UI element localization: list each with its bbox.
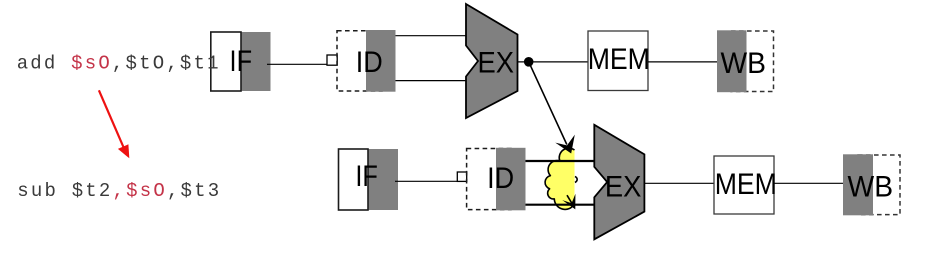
wire EX-MEM (add)	[518, 61, 589, 63]
connector square on ID (sub)	[457, 172, 466, 181]
hazard cloud	[545, 148, 574, 209]
ID stage box (sub)	[467, 149, 511, 210]
wire ID-EX bottom (add)	[396, 80, 468, 82]
EX ALU mux (add)	[466, 4, 518, 118]
cloud right-edge arc remnant	[575, 176, 577, 182]
MEM stage box (add)	[588, 31, 648, 91]
ID stage box (add)	[337, 31, 382, 91]
wire IF-ID (sub)	[395, 180, 458, 182]
svg-text:MEM: MEM	[588, 43, 650, 76]
forwarding arrow (EX/MEM to EX input of sub)	[529, 62, 567, 145]
junction dot at EX output	[524, 57, 534, 67]
svg-text:add $sO,$tO,$t1: add $sO,$tO,$t1	[17, 52, 221, 74]
forwarding arrow bottom fragment	[567, 195, 574, 206]
wire EX-MEM (sub)	[644, 182, 714, 184]
svg-text:IF: IF	[230, 45, 253, 78]
wire IF-ID (add)	[267, 63, 328, 65]
svg-text:MEM: MEM	[715, 168, 777, 201]
wire ID-EX bottom (sub)	[526, 204, 596, 206]
svg-text:IF: IF	[355, 160, 378, 193]
svg-text:EX: EX	[478, 47, 515, 80]
wire MEM-WB (add)	[648, 61, 717, 63]
forwarding arrowhead top	[558, 137, 574, 153]
svg-text:WB: WB	[848, 171, 894, 204]
WB stage box (sub)	[858, 155, 900, 215]
connector square on ID (add)	[327, 55, 337, 65]
svg-text:ID: ID	[356, 46, 383, 79]
IF stage box (sub)	[368, 149, 398, 210]
wire ID-EX top (sub)	[526, 160, 596, 162]
svg-text:sub $t2,$sO,$t3: sub $t2,$sO,$t3	[17, 180, 221, 202]
EX ALU mux (sub)	[594, 125, 644, 240]
svg-text:ID: ID	[487, 162, 514, 195]
wire MEM-WB (sub)	[774, 182, 843, 184]
forwarding arrowhead bottom	[565, 196, 575, 208]
wire ID-EX top (add)	[396, 35, 468, 37]
WB stage box (add)	[731, 31, 774, 92]
red dependence arrow	[99, 90, 129, 158]
svg-text:EX: EX	[605, 170, 642, 203]
MEM stage box (sub)	[714, 156, 774, 214]
svg-text:WB: WB	[720, 47, 766, 80]
IF stage box (add)	[241, 32, 271, 91]
